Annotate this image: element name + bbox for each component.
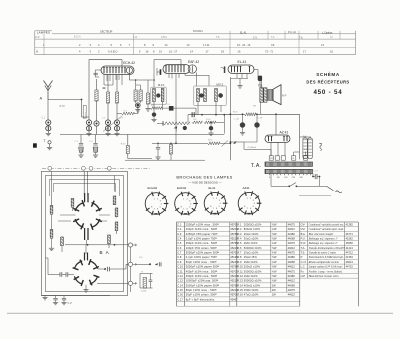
svg-text:C.15: C.15 — [177, 288, 183, 292]
resistors R8 R10 row — [192, 115, 224, 134]
svg-text:46613: 46613 — [346, 260, 354, 264]
svg-text:6: 6 — [216, 208, 218, 210]
svg-text:SCHÉMA: SCHÉMA — [316, 70, 340, 77]
svg-text:T.A.: T.A. — [299, 36, 303, 39]
svg-text:4250рF ±5% papier 700ᴹ: 4250рF ±5% papier 700ᴹ — [186, 232, 218, 236]
junction arrow node — [175, 106, 177, 144]
svg-text:C.9: C.9 — [177, 260, 182, 264]
svg-text:DES RÉCEPTEURS: DES RÉCEPTEURS — [306, 79, 349, 84]
svg-text:R.14: R.14 — [237, 283, 243, 287]
svg-text:EL41: EL41 — [209, 186, 216, 190]
svg-text:3203: 3203 — [270, 158, 274, 160]
grid bracket wire EAF — [153, 60, 155, 81]
capacitor C4 to ground — [89, 135, 98, 158]
resistor R9 — [169, 143, 172, 161]
svg-text:C.13: C.13 — [177, 279, 183, 283]
svg-text:45467: 45467 — [230, 297, 238, 301]
svg-text:25оΩ ±10%: 25оΩ ±10% — [244, 232, 259, 236]
svg-text:7: 7 — [183, 208, 185, 210]
tube EAF-42 — [163, 60, 199, 74]
svg-text:C.4: C.4 — [89, 141, 93, 143]
grid bracket wire ECH — [89, 60, 122, 117]
svg-text:44075: 44075 — [288, 251, 296, 255]
svg-text:110: 110 — [277, 177, 281, 179]
svg-text:400рF ±10% mica . 500ᴹ: 400рF ±10% mica . 500ᴹ — [186, 269, 218, 273]
pilot lamp — [319, 144, 322, 151]
svg-text:C.5: C.5 — [102, 118, 106, 120]
coil bobinage vertical — [82, 100, 87, 119]
svg-text:EAF-42: EAF-42 — [188, 60, 199, 64]
svg-text:C.4: C.4 — [177, 236, 182, 240]
svg-text:1МΩ ±10%: 1МΩ ±10% — [244, 260, 258, 264]
IF transformer MF1 — [151, 79, 166, 122]
svg-text:10000рF ±20% pap. 500ᴹ: 10000рF ±20% pap. 500ᴹ — [186, 279, 219, 283]
svg-text:— VUE DE DESSOUS —: — VUE DE DESSOUS — — [188, 180, 221, 184]
mains cord — [299, 186, 342, 195]
svg-text:44068: 44068 — [288, 283, 296, 287]
svg-text:½W: ½W — [272, 222, 277, 226]
svg-text:C.7: C.7 — [177, 251, 182, 255]
svg-text:C.2: C.2 — [177, 227, 182, 231]
svg-text:R.20: R.20 — [121, 144, 126, 146]
svg-text:44380: 44380 — [288, 255, 296, 259]
svg-text:3: 3 — [90, 50, 92, 54]
svg-text:H: H — [142, 271, 144, 273]
svg-text:2: 2 — [98, 50, 100, 54]
svg-text:3: 3 — [189, 200, 191, 202]
svg-text:14: 14 — [190, 50, 193, 54]
capacitor C17 across mains — [312, 171, 320, 187]
svg-text:50рF ±10% céram. 500ᴹ: 50рF ±10% céram. 500ᴹ — [186, 293, 217, 297]
svg-text:3: 3 — [160, 200, 162, 202]
svg-text:4: 4 — [161, 203, 163, 205]
power transformer TA secondary — [265, 169, 313, 179]
resistor R4 — [117, 108, 138, 115]
heater current label — [244, 146, 271, 156]
svg-text:2W: 2W — [253, 106, 257, 108]
svg-text:6: 6 — [157, 208, 159, 210]
svg-text:30оΩ ±10%: 30оΩ ±10% — [244, 236, 259, 240]
svg-text:8: 8 — [153, 50, 155, 54]
svg-text:R.16: R.16 — [237, 293, 243, 297]
output transformer TS and speaker HP — [253, 80, 287, 114]
svg-text:7: 7 — [129, 43, 131, 47]
right bus with junction nodes — [128, 243, 136, 292]
svg-text:C.12: C.12 — [177, 274, 183, 278]
svg-text:C.5: C.5 — [177, 241, 182, 245]
parts value table — [177, 222, 359, 306]
svg-text:C.1: C.1 — [42, 118, 46, 120]
svg-text:C.2: C.2 — [75, 141, 79, 143]
svg-text:250оΩ ±10%: 250оΩ ±10% — [244, 265, 261, 269]
svg-text:17: 17 — [206, 50, 209, 54]
tube EL-41 — [228, 60, 254, 73]
svg-text:ECH42: ECH42 — [148, 186, 158, 190]
svg-text:E.C.H.: E.C.H. — [74, 36, 81, 39]
svg-text:Bloc d'accord complet: Bloc d'accord complet — [309, 233, 334, 236]
svg-text:41213: 41213 — [346, 246, 354, 250]
svg-text:50000Ω ±10%: 50000Ω ±10% — [244, 246, 262, 250]
capacitor arrow right of S2 — [98, 264, 128, 271]
svg-text:2: 2 — [79, 43, 81, 47]
grid cap wire ECH — [94, 70, 102, 77]
wire collect line — [60, 134, 224, 136]
svg-text:16: 16 — [238, 50, 241, 54]
IF transformer MF2 — [194, 83, 226, 115]
svg-text:Lampe cadran 6,3ᴹ 0,3A écart: Lampe cadran 6,3ᴹ 0,3A écart — [308, 266, 343, 269]
wire lower bus — [125, 159, 205, 161]
svg-text:4: 4 — [79, 50, 81, 54]
svg-text:44612: 44612 — [288, 227, 296, 231]
svg-text:44612: 44612 — [288, 265, 296, 269]
capacitors series left of S2 — [54, 272, 74, 277]
svg-text:C.16: C.16 — [177, 293, 183, 297]
svg-text:800оΩ ±10%: 800оΩ ±10% — [244, 227, 261, 231]
svg-text:C.8: C.8 — [177, 255, 182, 259]
svg-text:R.10: R.10 — [206, 119, 211, 121]
svg-text:B.KP: B.KP — [60, 105, 66, 108]
resistor R5 R6 pair — [134, 79, 142, 112]
svg-text:R.5: R.5 — [237, 241, 242, 245]
svg-text:2W: 2W — [272, 288, 276, 292]
svg-text:C.3: C.3 — [177, 232, 182, 236]
svg-text:18: 18 — [221, 50, 224, 54]
svg-text:2500рF ±10% mica . 500ᴹ: 2500рF ±10% mica . 500ᴹ — [186, 222, 219, 226]
svg-text:245: 245 — [299, 177, 303, 179]
svg-text:44068: 44068 — [288, 236, 296, 240]
svg-text:44380: 44380 — [288, 232, 296, 236]
svg-text:5: 5 — [160, 207, 162, 209]
svg-text:3: 3 — [219, 200, 221, 202]
svg-text:EL-41: EL-41 — [238, 60, 247, 64]
svg-text:200рF ±10% mica . 500ᴹ: 200рF ±10% mica . 500ᴹ — [186, 227, 218, 231]
svg-text:CV²: CV² — [301, 227, 306, 231]
svg-text:1МΩ ±10%: 1МΩ ±10% — [244, 274, 258, 278]
title block SCHEMA DES RECEPTEURS 450-54 — [306, 70, 349, 96]
svg-text:P.U.: P.U. — [301, 236, 306, 240]
trimmer C3 on oscillator coil — [82, 117, 92, 136]
svg-text:H.P: H.P — [282, 94, 287, 98]
svg-text:R.8: R.8 — [237, 255, 242, 259]
svg-text:R.12: R.12 — [237, 274, 243, 278]
svg-text:C.1: C.1 — [177, 222, 182, 226]
svg-text:Bobinage m.f. séquence 1º: Bobinage m.f. séquence 1º — [309, 237, 338, 240]
wire ECH plate to MF1 — [129, 73, 153, 80]
svg-text:6: 6 — [250, 208, 252, 210]
svg-text:1: 1 — [247, 198, 249, 200]
resistor R2 — [94, 79, 99, 135]
svg-text:½W: ½W — [272, 265, 277, 269]
svg-text:25оΩ ±5%: 25оΩ ±5% — [244, 255, 258, 259]
page bottom edge — [7, 312, 393, 314]
tube ECH-42 — [101, 61, 135, 74]
svg-text:1: 1 — [183, 199, 185, 201]
svg-text:C.6: C.6 — [120, 118, 124, 120]
svg-text:5000рF ±20% papier 500ᴹ: 5000рF ±20% papier 500ᴹ — [186, 251, 220, 255]
svg-text:8μF + 8μF électrochim.: 8μF + 8μF électrochim. — [186, 297, 216, 301]
top characteristics table — [35, 30, 356, 55]
svg-text:¼W: ¼W — [272, 241, 277, 245]
potentiometer P — [157, 121, 189, 132]
svg-text:9: 9 — [153, 43, 155, 47]
svg-text:Potentiomètre 0,5МΩ interrupt: Potentiomètre 0,5МΩ interrupt. — [308, 256, 344, 259]
svg-text:3: 3 — [90, 43, 92, 47]
svg-text:44068: 44068 — [288, 260, 296, 264]
shield dash-dot line — [42, 166, 150, 170]
svg-text:41353: 41353 — [346, 255, 354, 259]
rotary switch S1 — [73, 193, 102, 240]
mains wiring and switch — [271, 174, 312, 188]
svg-text:5: 5 — [111, 43, 113, 47]
svg-text:350рF ±10% mica . 500ᴹ: 350рF ±10% mica . 500ᴹ — [186, 241, 218, 245]
svg-text:R.2: R.2 — [237, 227, 242, 231]
svg-text:3: 3 — [253, 200, 255, 202]
svg-text:C.8: C.8 — [167, 104, 171, 106]
svg-text:½W: ½W — [272, 236, 277, 240]
svg-text:44075: 44075 — [288, 241, 296, 245]
svg-text:R.7: R.7 — [237, 251, 242, 255]
svg-text:T.S.: T.S. — [301, 251, 306, 255]
svg-text:T.S.: T.S. — [258, 83, 263, 87]
svg-text:Condensat' variable accord osc: Condensat' variable accord osc. — [309, 223, 345, 226]
svg-text:450 - 54: 450 - 54 — [313, 89, 342, 96]
svg-text:17: 17 — [303, 50, 306, 54]
svg-text:44380: 44380 — [288, 274, 296, 278]
svg-text:R.1: R.1 — [237, 222, 242, 226]
svg-text:4: 4 — [220, 203, 222, 205]
svg-text:R.4: R.4 — [237, 236, 242, 240]
svg-text:Bobinage m.f. séquence 2º: Bobinage m.f. séquence 2º — [309, 242, 338, 245]
wire EL41 pins — [230, 74, 248, 161]
svg-text:5000рF ±20% papier 500ᴹ: 5000рF ±20% papier 500ᴹ — [186, 283, 220, 287]
svg-text:B.A.: B.A. — [301, 232, 306, 236]
svg-text:C.17: C.17 — [301, 260, 307, 264]
svg-text:L.O: L.O — [304, 149, 308, 151]
svg-text:7: 7 — [213, 208, 215, 210]
svg-text:5: 5 — [139, 50, 141, 54]
svg-text:8: 8 — [144, 43, 146, 47]
svg-text:½W: ½W — [272, 246, 277, 250]
svg-text:6: 6 — [120, 43, 122, 47]
svg-text:20оΩ ±10%: 20оΩ ±10% — [244, 251, 259, 255]
svg-text:1W: 1W — [272, 283, 276, 287]
svg-text:46771: 46771 — [346, 232, 354, 236]
svg-text:Réseau antiparasite secteur: Réseau antiparasite secteur — [308, 261, 340, 264]
svg-text:1: 1 — [154, 199, 156, 201]
svg-text:R.3: R.3 — [237, 232, 242, 236]
wire screen feed — [230, 141, 258, 149]
svg-text:C.19: C.19 — [258, 118, 263, 120]
heater wiring bus — [152, 140, 231, 147]
ground S2 — [45, 245, 128, 292]
antenna A — [40, 81, 53, 101]
svg-text:150Ω ±10%: 150Ω ±10% — [244, 288, 259, 292]
svg-text:44075: 44075 — [288, 288, 296, 292]
svg-text:CV¹: CV¹ — [301, 222, 306, 226]
svg-text:Haut-Parleur ticonal 12cm: Haut-Parleur ticonal 12cm — [308, 275, 339, 278]
wire AZ pins to taps — [271, 143, 285, 156]
coupling capacitor C14 — [254, 70, 262, 88]
svg-text:44612: 44612 — [288, 246, 296, 250]
svg-text:R.13: R.13 — [237, 279, 243, 283]
svg-text:SECTEUR: SECTEUR — [100, 30, 113, 34]
svg-text:13: 13 — [321, 43, 324, 47]
svg-text:46556: 46556 — [346, 241, 354, 245]
svg-text:44712: 44712 — [346, 251, 354, 255]
B+ bus wire — [230, 111, 300, 120]
svg-text:Condensat' variable ajust. mod: Condensat' variable ajust. mod. — [309, 228, 344, 231]
svg-text:T.A.: T.A. — [251, 163, 262, 169]
svg-text:73 - 71: 73 - 71 — [265, 50, 274, 54]
svg-text:¼W: ¼W — [272, 227, 277, 231]
svg-text:Fu: Fu — [301, 269, 305, 273]
electrolytic filter cans — [300, 136, 313, 158]
svg-text:P.U²: P.U² — [301, 241, 306, 245]
svg-text:R.6: R.6 — [237, 246, 242, 250]
svg-text:7: 7 — [247, 208, 249, 210]
svg-text:P: P — [301, 255, 303, 259]
svg-text:44715: 44715 — [346, 265, 354, 269]
bottom wire and CV caps — [41, 296, 110, 305]
svg-text:13: 13 — [187, 43, 190, 47]
tube AZ 41 — [265, 130, 290, 142]
svg-text:B A: B A — [100, 250, 110, 255]
svg-text:2МΩ ±10%: 2МΩ ±10% — [244, 241, 258, 245]
svg-text:0,1μF ±20% papier 750ᴹ: 0,1μF ±20% papier 750ᴹ — [186, 255, 218, 259]
svg-text:130: 130 — [284, 177, 288, 179]
wire ECH pins down — [102, 75, 122, 90]
capacitor C9 to ground — [155, 143, 160, 160]
filter capacitor C15 — [240, 113, 245, 135]
AVC line with capacitor C8 — [151, 104, 197, 115]
svg-text:T.A.: T.A. — [301, 246, 306, 250]
svg-text:A: A — [40, 96, 43, 100]
coils around S1 — [50, 196, 118, 246]
tube socket EL41 — [204, 186, 227, 215]
svg-text:Fusible 1 amp. - verre (laito: Fusible 1 amp. - verre (laiton) — [308, 270, 342, 273]
svg-text:50рF ±10% mica .. 500ᴹ: 50рF ±10% mica .. 500ᴹ — [186, 260, 217, 264]
svg-text:≈7,56mA: ≈7,56mA — [247, 146, 257, 149]
svg-text:R.4: R.4 — [124, 111, 128, 113]
svg-text:C.V¹: C.V¹ — [68, 302, 73, 305]
svg-text:C.3: C.3 — [83, 118, 87, 120]
svg-text:4: 4 — [190, 203, 192, 205]
svg-text:1: 1 — [213, 198, 215, 200]
band switch frame outer — [41, 172, 127, 296]
svg-text:½W: ½W — [272, 232, 277, 236]
svg-text:P.U: P.U — [139, 257, 143, 259]
svg-text:½W: ½W — [272, 255, 277, 259]
tone network box — [140, 271, 153, 292]
svg-text:BROCHAGE DES LAMPES: BROCHAGE DES LAMPES — [176, 175, 232, 180]
svg-text:ECH-42: ECH-42 — [123, 61, 135, 65]
grid cap bar EAF — [157, 68, 161, 76]
svg-text:50000Ω ±10%: 50000Ω ±10% — [244, 279, 262, 283]
svg-text:½W: ½W — [272, 279, 277, 283]
svg-text:220: 220 — [292, 177, 296, 179]
power transformer TA primary — [251, 162, 313, 169]
svg-text:17-11: 17-11 — [203, 43, 210, 47]
resistor R3 — [102, 75, 111, 136]
terminal T with ground — [44, 139, 53, 150]
resistor R20 — [121, 135, 152, 159]
rectifier loop wires — [275, 113, 299, 159]
terminal block — [33, 143, 37, 147]
svg-text:C9: C9 — [271, 43, 275, 47]
svg-text:0,5μF ±10% papier 750ᴹ: 0,5μF ±10% papier 750ᴹ — [186, 236, 218, 240]
wires S1 interconnect — [49, 172, 131, 253]
svg-text:26: 26 — [292, 158, 294, 160]
svg-text:A.B.C: A.B.C — [161, 36, 167, 39]
svg-text:44075: 44075 — [288, 269, 296, 273]
wire antenna to tuner node — [48, 99, 82, 101]
svg-text:5: 5 — [253, 206, 255, 208]
electrolytic C12 — [208, 122, 213, 136]
svg-text:20000Ω ±10%: 20000Ω ±10% — [244, 222, 262, 226]
svg-text:C.11: C.11 — [177, 269, 183, 273]
svg-text:C.V.2: C.V.2 — [141, 290, 147, 292]
svg-text:H.P: H.P — [301, 274, 306, 278]
tube socket ECH42 — [145, 186, 168, 215]
svg-text:C.V.: C.V. — [253, 36, 258, 39]
svg-text:C.V.: C.V. — [35, 36, 40, 39]
svg-text:BANDES: BANDES — [193, 30, 203, 33]
svg-text:47оΩ ±10%: 47оΩ ±10% — [244, 293, 259, 297]
rotary switch S2 — [73, 253, 100, 286]
svg-text:Transfo de sortie 2 watts: Transfo de sortie 2 watts — [309, 252, 336, 255]
svg-text:4: 4 — [254, 203, 256, 205]
svg-text:½W: ½W — [272, 274, 277, 278]
svg-text:B: B — [36, 50, 38, 54]
svg-text:R.8: R.8 — [193, 119, 197, 121]
svg-text:C.17: C.17 — [177, 297, 183, 301]
svg-text:M.F.1: M.F.1 — [158, 83, 165, 87]
svg-text:+ 8µF: + 8µF — [302, 136, 308, 138]
svg-text:R.11: R.11 — [237, 269, 243, 273]
svg-text:41382: 41382 — [346, 222, 354, 226]
svg-text:L.16: L.16 — [235, 119, 240, 121]
pickup capacitor node — [137, 257, 162, 267]
svg-text:¼W: ¼W — [272, 260, 277, 264]
svg-text:¼W: ¼W — [272, 269, 277, 273]
svg-text:C.10: C.10 — [177, 265, 183, 269]
svg-text:41562: 41562 — [346, 236, 354, 240]
resistor R7 — [145, 80, 150, 111]
tube socket AZ41 — [238, 186, 261, 215]
svg-text:0: 0 — [269, 177, 271, 179]
svg-text:C.14: C.14 — [177, 283, 183, 287]
svg-text:4: 4 — [98, 43, 100, 47]
svg-text:250рF ±10% mica . 500ᴹ: 250рF ±10% mica . 500ᴹ — [186, 274, 218, 278]
grid squiggle EL41 — [221, 66, 226, 73]
svg-text:80рF ±10% mica .. 500ᴹ: 80рF ±10% mica .. 500ᴹ — [186, 288, 217, 292]
tube socket EAF42 — [175, 186, 198, 215]
svg-text:400оΩ ±10%: 400оΩ ±10% — [244, 283, 261, 287]
svg-text:30000Ω ±10%: 30000Ω ±10% — [244, 269, 262, 273]
svg-text:6: 6 — [186, 208, 188, 210]
filter capacitor C16 — [255, 114, 260, 142]
svg-text:C.17: C.17 — [313, 171, 318, 173]
svg-text:1W: 1W — [272, 293, 276, 297]
svg-text:R.10: R.10 — [237, 265, 243, 269]
capacitor C2 to ground — [75, 135, 84, 158]
svg-text:16 - 15 - 16: 16 - 15 - 16 — [237, 43, 251, 47]
gang arrow CV — [103, 116, 123, 132]
svg-text:A.S.B.O: A.S.B.O — [108, 50, 117, 54]
svg-text:AZ41: AZ41 — [243, 186, 251, 190]
svg-text:R.16: R.16 — [233, 111, 238, 113]
svg-text:EAF42: EAF42 — [177, 186, 187, 190]
